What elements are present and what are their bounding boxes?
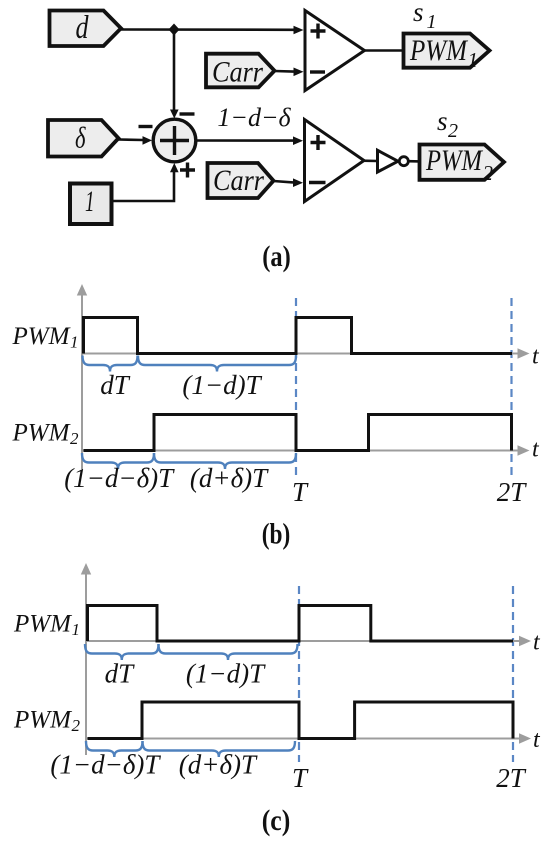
wire U2 output to inverter <box>362 159 378 162</box>
node junction on d wire <box>169 24 180 36</box>
wire Carr to comparator U1 - input <box>275 68 304 77</box>
inverter (NOT gate) <box>378 150 409 172</box>
label PWM1 (b) <box>11 323 78 352</box>
brace (1-d)T (c) <box>159 644 298 660</box>
svg-text:1: 1 <box>72 620 81 639</box>
svg-text:1: 1 <box>427 11 437 33</box>
svg-text:PWM: PWM <box>425 144 483 177</box>
svg-text:2: 2 <box>70 429 79 448</box>
PWM1 waveform (c) <box>88 606 514 642</box>
svg-text:1−d−δ: 1−d−δ <box>217 103 291 132</box>
svg-text:(1−d)T: (1−d)T <box>186 659 266 689</box>
svg-text:d: d <box>76 10 89 46</box>
svg-text:s: s <box>437 106 448 136</box>
svg-text:dT: dT <box>100 370 131 400</box>
brace (1-d-delta)T (b) <box>82 453 154 469</box>
svg-text:2: 2 <box>448 120 458 142</box>
wire from 1 up to summing node <box>113 163 179 201</box>
svg-text:Carr: Carr <box>213 165 264 197</box>
svg-text:T: T <box>292 763 309 793</box>
wire delta to summing node <box>119 136 153 145</box>
svg-text:(a): (a) <box>262 241 291 273</box>
plus sign below summing node <box>180 163 195 178</box>
PWM2 time axis (c) <box>86 733 531 743</box>
vertical axis (b) <box>77 284 87 469</box>
brace (1-d-delta)T (c) <box>86 741 143 757</box>
svg-text:s: s <box>413 0 424 27</box>
PWM2 waveform (b) <box>84 415 512 451</box>
vertical axis (c) <box>81 563 91 755</box>
dashed line 2T (c) <box>512 586 514 762</box>
wire from d to comparator U1 + input <box>121 26 304 35</box>
svg-text:2T: 2T <box>496 763 527 793</box>
svg-text:δ: δ <box>75 122 86 155</box>
svg-text:T: T <box>292 477 309 507</box>
comparator U1 <box>305 11 365 91</box>
svg-text:1: 1 <box>85 185 95 218</box>
PWM1 time axis (c) <box>86 636 531 646</box>
wire Carr to comparator U2 - input <box>274 178 304 187</box>
label PWM2 (b) <box>11 420 79 449</box>
label s2 <box>437 106 458 142</box>
output tag PWM1 <box>404 34 490 73</box>
block delta (input tag) <box>48 120 119 157</box>
svg-text:(b): (b) <box>262 519 291 551</box>
PWM1 time axis (b) <box>82 348 530 358</box>
svg-text:(1−d)T: (1−d)T <box>182 370 262 400</box>
minus sign above summing node <box>180 112 195 115</box>
svg-text:(d+δ)T: (d+δ)T <box>179 750 258 780</box>
PWM1 waveform (b) <box>84 318 513 354</box>
svg-text:2: 2 <box>72 716 81 735</box>
wire inverter to PWM2 <box>408 160 420 163</box>
summing node <box>153 119 196 162</box>
block Carr (carrier input tag, lower) <box>208 163 274 198</box>
svg-text:1: 1 <box>70 333 79 352</box>
comparator U2 <box>305 120 365 202</box>
svg-text:2: 2 <box>483 161 494 185</box>
block Carr (carrier input tag, upper) <box>206 54 275 89</box>
brace (d+delta)T (c) <box>143 741 296 757</box>
label PWM2 (c) <box>13 707 81 736</box>
dashed line T (c) <box>298 586 300 762</box>
wire junction down to summing node <box>170 30 179 119</box>
output tag PWM2 <box>420 144 505 185</box>
brace (d+delta)T (b) <box>154 453 296 469</box>
label s1 <box>413 0 437 33</box>
brace dT (c) <box>85 644 159 660</box>
wire U1 output to PWM1 <box>362 49 404 52</box>
PWM2 time axis (b) <box>82 445 530 455</box>
svg-text:PWM: PWM <box>13 611 72 638</box>
wire summing node to comparator U2 + input <box>196 136 303 145</box>
svg-text:PWM: PWM <box>11 323 70 350</box>
block d (duty-cycle input tag) <box>50 10 122 46</box>
svg-text:(1−d−δ)T: (1−d−δ)T <box>64 463 175 493</box>
svg-text:(c): (c) <box>262 805 291 837</box>
dashed line T (b) <box>295 298 297 480</box>
block 1 (constant) <box>70 184 112 225</box>
PWM2 waveform (c) <box>88 702 514 739</box>
svg-text:PWM: PWM <box>11 420 70 447</box>
svg-text:Carr: Carr <box>212 57 263 89</box>
label PWM1 (c) <box>13 611 80 640</box>
svg-text:(1−d−δ)T: (1−d−δ)T <box>50 750 161 780</box>
dashed line 2T (b) <box>510 298 512 480</box>
brace dT (b) <box>83 356 138 372</box>
svg-text:1: 1 <box>468 48 479 72</box>
svg-text:PWM: PWM <box>13 707 72 734</box>
svg-text:PWM: PWM <box>409 34 469 67</box>
brace (1-d)T (b) <box>138 356 296 372</box>
svg-text:dT: dT <box>105 659 136 689</box>
svg-text:2T: 2T <box>497 477 528 507</box>
minus sign left of summing node <box>139 125 153 128</box>
svg-text:(d+δ)T: (d+δ)T <box>190 463 269 493</box>
